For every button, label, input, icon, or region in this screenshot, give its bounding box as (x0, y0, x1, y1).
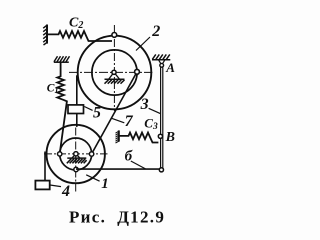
svg-text:б: б (125, 149, 133, 165)
leader to label 6 (131, 161, 146, 169)
svg-text:3: 3 (140, 96, 149, 113)
spring C2 (47, 31, 112, 41)
leader to label 3 (149, 108, 161, 113)
svg-text:2: 2 (151, 23, 160, 40)
spring C1 (57, 62, 67, 153)
rod 3 top pin (160, 63, 164, 67)
wall support of spring C3 (116, 130, 119, 143)
wheel 2 centerline vertical (113, 25, 115, 111)
svg-text:1: 1 (101, 176, 109, 192)
node on inner rim of pulley 2 (cord 7 attach) (135, 69, 140, 74)
node at rod bottom (159, 168, 163, 172)
svg-text:7: 7 (125, 113, 134, 130)
pulley 2 outer circle (78, 36, 152, 110)
svg-text:A: A (165, 60, 175, 75)
cord from pulley 2 rim through damper 5 to pulley 1 rim (upper part) (76, 75, 78, 105)
svg-text:B: B (165, 130, 175, 145)
weight 4 box (35, 181, 49, 190)
pulley 1 outer circle (46, 125, 104, 183)
node at top of pulley 2 (C2 attach) (112, 33, 117, 38)
svg-text:Д12.9: Д12.9 (117, 208, 165, 227)
wall support of spring C2 (43, 25, 47, 46)
cord to weight 4 (44, 152, 46, 181)
leader to label 7 (112, 118, 124, 122)
ceiling support of spring C1 (54, 56, 70, 62)
cord 7 diagonal between pulleys (92, 72, 137, 154)
rod 3 (double line) (161, 67, 163, 168)
wheel 1 centerline vertical (75, 128, 77, 194)
svg-text:Рис.: Рис. (69, 208, 106, 227)
leader to label 5 (84, 107, 92, 111)
wheel 1 centerline horizontal (44, 153, 108, 155)
leader to label 2 (136, 37, 150, 51)
leader to label 4 (50, 185, 61, 187)
wheel 2 centerline horizontal (69, 71, 152, 73)
svg-text:C1: C1 (47, 82, 59, 95)
node right of pulley 1 inner rim (cord 7 attach) (89, 152, 93, 156)
cord below damper 5 (76, 114, 78, 127)
pivot of pulley 2 (105, 70, 125, 83)
rod 3 top pin bracket (159, 60, 165, 64)
pulley 1 inner circle (60, 138, 92, 170)
ceiling support of rod 3 (152, 54, 170, 59)
leader to label 1 (86, 175, 99, 181)
node center of pulley 1 (74, 152, 78, 156)
node B on rod (158, 134, 162, 138)
node left of pulley 1 inner rim (C1 attach) (58, 152, 62, 156)
svg-text:5: 5 (93, 104, 101, 121)
damper 5 box (68, 105, 84, 114)
pulley 2 inner circle (92, 50, 137, 95)
cord 6 horizontal (76, 168, 160, 170)
spring C3 (119, 133, 158, 143)
pivot of pulley 1 (67, 154, 87, 164)
node bottom of pulley 1 inner rim (cord 6 attach) (74, 167, 78, 171)
svg-text:4: 4 (61, 183, 70, 200)
